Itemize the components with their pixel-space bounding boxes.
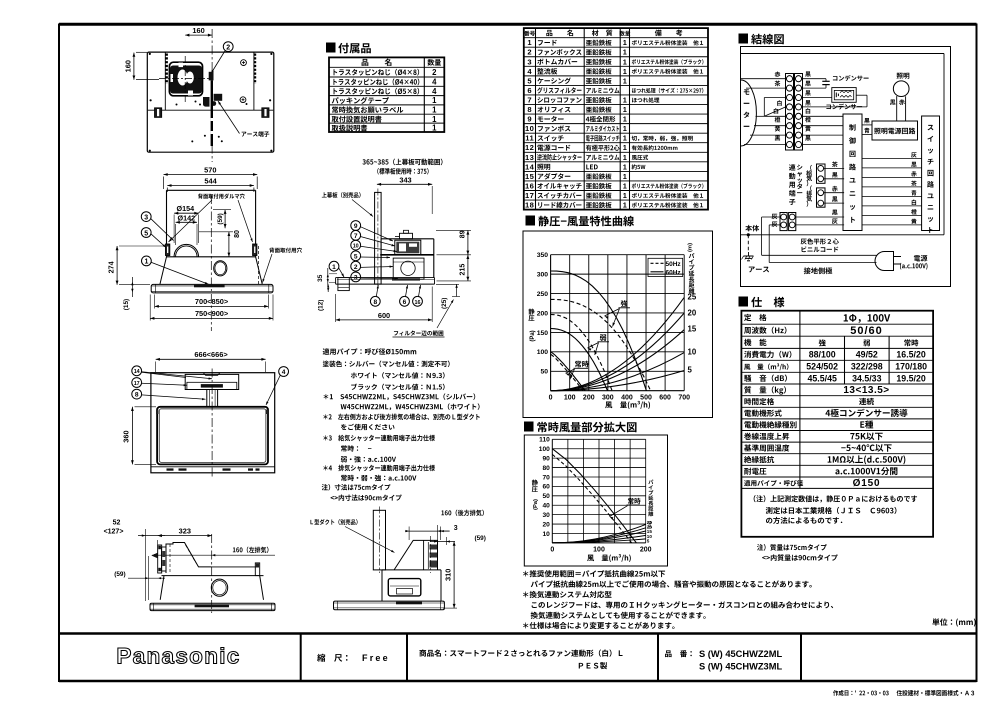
svg-text:0: 0: [550, 547, 554, 554]
pq chart legend 60Hz: [651, 271, 664, 273]
spec label 耐電圧: [744, 468, 766, 475]
usage note 2: [531, 580, 812, 587]
spec label 時間定格: [744, 398, 774, 405]
svg-text:34.5/33: 34.5/33: [852, 373, 881, 383]
wire color labels right: [805, 71, 810, 76]
front view: rear hole label: [269, 248, 302, 253]
enlarged chart outer box: [524, 435, 667, 566]
top view: earth terminal label: [242, 131, 270, 137]
svg-text:11: 11: [525, 134, 534, 143]
spec value insulation class: [860, 420, 873, 428]
svg-text:5: 5: [688, 366, 693, 375]
svg-text:1: 1: [623, 76, 627, 85]
svg-text:215: 215: [459, 264, 466, 276]
body boundary line: [741, 234, 945, 236]
spec section header: [739, 297, 749, 307]
svg-text:7: 7: [354, 233, 358, 240]
fan curve weak 60Hz: [551, 329, 608, 391]
svg-text:1: 1: [432, 96, 437, 105]
top view: dim 160 left: [133, 53, 135, 80]
svg-text:20: 20: [688, 309, 697, 318]
svg-text:4: 4: [432, 78, 437, 87]
top view: mounting bracket left: [155, 108, 162, 118]
svg-text:274: 274: [107, 261, 116, 273]
svg-text:524/502: 524/502: [806, 362, 838, 372]
right side view: dim 160 rear exhaust: [441, 510, 483, 516]
svg-text:16.5/20: 16.5/20: [896, 350, 925, 360]
svg-text:360: 360: [121, 430, 130, 442]
svg-text:Ø150: Ø150: [853, 478, 881, 489]
svg-text:700<850>: 700<850>: [195, 297, 229, 306]
spec value motor type: [825, 409, 907, 417]
color note 1: [323, 361, 450, 368]
bottom view: duct stem: [206, 390, 208, 407]
callout 10 balloon: [351, 240, 361, 250]
earth label: [749, 267, 769, 273]
control unit wires in: [802, 115, 844, 117]
duct note: [323, 414, 479, 421]
left side view: duct hole: [211, 579, 227, 596]
spec label 基準周囲温度: [744, 444, 789, 451]
front view: duct dome inner: [176, 246, 197, 257]
shutter note 4a: [341, 475, 416, 481]
spec value ambient temp: [841, 444, 891, 452]
svg-text:50: 50: [542, 493, 550, 500]
top view: dim 160 top: [185, 34, 212, 36]
shutter note 4: [323, 465, 435, 472]
svg-text:Panasonic: Panasonic: [116, 644, 240, 669]
capacitor C1: [802, 78, 827, 80]
plug symbol: [875, 252, 894, 271]
svg-text:1: 1: [623, 67, 627, 76]
top view: plate outline: [147, 52, 273, 152]
svg-text:89: 89: [459, 230, 466, 238]
svg-text:100: 100: [537, 349, 549, 356]
side view: dim 35: [327, 268, 329, 287]
svg-text:S (W) 45CHWZ2ML: S (W) 45CHWZ2ML: [699, 649, 782, 659]
svg-text:170/180: 170/180: [895, 362, 927, 372]
callout 17 balloon: [132, 378, 142, 388]
shutter note 3: [323, 435, 435, 442]
spec subheader: [819, 339, 826, 346]
parts table grid: [524, 28, 708, 210]
svg-text:1: 1: [623, 153, 627, 162]
accessories row 1: [334, 69, 420, 76]
svg-text:40: 40: [542, 503, 550, 510]
pq chart section header: [526, 216, 536, 226]
side view: fan scroll box: [395, 240, 421, 255]
svg-text:1: 1: [332, 264, 336, 271]
svg-text:300: 300: [537, 272, 549, 279]
enlarged curve always 50Hz: [552, 454, 631, 543]
fan curve always 60Hz: [551, 352, 585, 391]
bottom view: top notch: [203, 373, 220, 376]
enlarged curve always 60Hz: [552, 449, 636, 543]
svg-text:570: 570: [204, 165, 216, 174]
weight note 2: [762, 554, 838, 561]
svg-text:8: 8: [135, 392, 139, 399]
callout 1 balloon side: [329, 261, 339, 271]
svg-text:160: 160: [124, 60, 133, 72]
svg-text:7: 7: [527, 95, 532, 104]
top view: vent slots left: [165, 54, 168, 85]
color note 2: [351, 372, 445, 379]
usage note 4: [532, 601, 834, 608]
svg-text:5: 5: [144, 230, 148, 237]
front view: duct hole ring: [214, 261, 227, 276]
svg-text:700: 700: [678, 395, 690, 402]
weight note 1: [757, 544, 827, 551]
svg-text:Ø154: Ø154: [177, 204, 195, 213]
svg-text:15: 15: [525, 172, 535, 181]
callout 2 balloon: [223, 42, 233, 52]
svg-text:544: 544: [204, 176, 217, 185]
svg-text:50: 50: [541, 369, 549, 376]
svg-text:16: 16: [525, 181, 534, 190]
lamp circuit wire labels: [864, 118, 869, 123]
svg-text:4: 4: [527, 67, 532, 76]
right side view: L duct outline: [394, 540, 437, 570]
usage note 5: [531, 612, 706, 619]
pipe note: [323, 348, 417, 355]
left side view: exhaust arrow: [151, 553, 157, 558]
svg-text:8: 8: [373, 299, 377, 306]
top view: earth terminal part: [209, 72, 214, 81]
bottom view: outer outline: [151, 373, 275, 473]
spec label 機 能: [744, 339, 766, 346]
svg-text:5: 5: [647, 538, 650, 543]
bottom view: baffle clips: [156, 410, 158, 415]
side view: range note 2: [377, 168, 428, 175]
svg-text:15: 15: [688, 325, 697, 334]
footer format: [897, 690, 975, 696]
side view: top board: [375, 192, 382, 284]
svg-text:(Pa): (Pa): [533, 499, 539, 510]
spec value withstand: [835, 467, 897, 475]
svg-text:S (W) 45CHWZ3ML: S (W) 45CHWZ3ML: [699, 662, 782, 672]
power strip wire labels: [832, 210, 838, 215]
lamp wires: [896, 96, 898, 121]
svg-text:4: 4: [432, 87, 437, 96]
svg-text:600: 600: [378, 311, 390, 320]
svg-text:(59): (59): [217, 213, 224, 224]
callout 1 balloon: [142, 256, 152, 266]
bottom view: centerline: [211, 369, 213, 479]
side view: dim 89: [467, 230, 469, 254]
lamp label: [897, 73, 910, 79]
power strip wires right: [796, 216, 844, 218]
label always: [575, 361, 589, 368]
motor M: [741, 80, 757, 146]
dims note 1: [322, 484, 391, 491]
svg-text:600: 600: [659, 395, 671, 402]
svg-text:3: 3: [354, 275, 358, 282]
pq chart grid: [550, 255, 552, 391]
callout 3 balloon: [351, 272, 361, 282]
right side view: body top: [382, 569, 441, 571]
callout 8 balloon bottom: [370, 296, 380, 306]
exhaust wire labels: [832, 186, 838, 192]
top view: mounting bracket right: [262, 108, 269, 118]
switch circuit unit box: [922, 116, 940, 231]
terminal circles right: [795, 76, 801, 82]
spec label 消費電力（W）: [744, 351, 791, 358]
front view: bottom tray: [151, 284, 273, 293]
intake label: [810, 165, 812, 171]
intake wire labels: [832, 162, 838, 168]
top view: compartment bottom line: [148, 109, 273, 111]
svg-text:10: 10: [525, 124, 534, 133]
product name label: [419, 649, 622, 656]
side view: dim 215: [467, 255, 469, 281]
spec label 質 量（kg）: [744, 386, 786, 394]
pq chart legend box: [648, 258, 683, 276]
side view: motor cap: [400, 233, 413, 239]
accessories row 7: [332, 125, 368, 132]
top view: fan scroll dark body: [170, 66, 202, 94]
side view: board label: [322, 192, 361, 198]
label strong: [621, 300, 628, 307]
lamp circuit wires: [862, 124, 872, 126]
duct note 2: [341, 424, 395, 431]
left side view: inner dashed: [169, 544, 171, 573]
svg-text:12: 12: [525, 143, 534, 152]
top view: junction box: [203, 97, 210, 107]
right side view: duct interior: [423, 540, 425, 570]
control to switch wires: [862, 157, 922, 159]
power voltage label: [900, 263, 928, 270]
svg-text:(59): (59): [475, 535, 486, 542]
side view: inner box: [393, 258, 424, 279]
front view: switch strip dark: [194, 285, 225, 288]
left side view: dim 160 left exhaust: [233, 547, 269, 553]
enlarged pipe curves: [552, 524, 645, 543]
svg-text:1: 1: [527, 38, 532, 47]
label weak: [600, 334, 606, 341]
svg-text:35: 35: [317, 274, 324, 282]
callout 8 balloon k: [132, 389, 142, 399]
top view: terminal block: [214, 94, 223, 101]
exhaust label: [810, 185, 812, 191]
callout 5 balloon: [141, 228, 151, 238]
svg-text:80: 80: [234, 230, 241, 238]
front view: flare left: [160, 257, 167, 285]
enlarged chart x axis title: [587, 554, 631, 562]
usage note 6: [523, 622, 675, 629]
side view: filter range label: [394, 330, 443, 336]
svg-text:14: 14: [525, 162, 535, 171]
svg-text:1: 1: [623, 115, 627, 124]
front view: dim (15): [131, 277, 133, 297]
svg-text:250: 250: [537, 291, 549, 298]
front view: dim 544: [167, 185, 254, 187]
svg-text:50/60: 50/60: [850, 325, 883, 337]
svg-text:<127>: <127>: [104, 528, 124, 535]
ground pole label: [804, 267, 833, 274]
control circuit unit label: [849, 124, 855, 131]
pipe resistance curves: [551, 297, 685, 390]
spec label 定 格: [744, 314, 767, 321]
terminal strip right: [795, 74, 803, 151]
accessories row 2: [333, 78, 419, 85]
svg-text:310: 310: [443, 569, 452, 581]
front view: dim 700: [155, 305, 269, 307]
power terminal strip B: [789, 213, 796, 231]
left side view: bottom tray: [150, 603, 275, 610]
top view: plate centerline: [211, 29, 213, 162]
side view: body left edge: [380, 239, 382, 278]
enlarged chart grid: [551, 439, 553, 543]
svg-text:150: 150: [537, 330, 549, 337]
bottom view: bottom strip line: [151, 466, 275, 468]
svg-text:2: 2: [432, 68, 437, 77]
front view: side flange left: [166, 244, 170, 256]
model note 1b: [341, 403, 480, 410]
accessories section header: [326, 43, 336, 53]
svg-text:200: 200: [640, 547, 652, 554]
top view: small screws dots: [195, 101, 197, 103]
top view: inner compartment left wall: [164, 52, 166, 110]
svg-text:1: 1: [623, 57, 627, 66]
side view: dim (12): [327, 280, 329, 297]
control to switch wire labels: [911, 152, 916, 157]
svg-text:9: 9: [354, 223, 358, 230]
left side view: tray dark strip: [195, 604, 229, 607]
title block divider 1: [300, 634, 302, 682]
shutter note 3b: [341, 456, 396, 462]
front view: dim 750: [150, 317, 273, 319]
svg-text:1: 1: [623, 48, 627, 57]
bottom view: dim 666: [156, 358, 266, 360]
title block bottom border: [59, 680, 977, 683]
svg-text:10: 10: [542, 531, 550, 538]
svg-text:1: 1: [623, 201, 627, 210]
spec label 巻線温度上昇: [744, 433, 789, 440]
model number label: [665, 650, 692, 657]
callout 7 balloon: [351, 230, 361, 240]
wire top loop: [741, 53, 945, 55]
power strip labels: [772, 214, 778, 219]
enlarged chart right axis title: [648, 480, 653, 484]
spec label 騒 音（dB）: [744, 375, 787, 382]
control circuit unit box: [843, 114, 862, 231]
svg-text:110: 110: [539, 437, 550, 444]
enlarged chart section header: [524, 422, 534, 432]
fan curve strong 50Hz: [551, 299, 651, 390]
usage note 3: [523, 591, 612, 598]
right side view: duct centerline: [430, 536, 432, 573]
svg-text:80: 80: [542, 465, 550, 472]
svg-text:160: 160: [192, 26, 204, 35]
side view: dim 600: [336, 319, 433, 321]
spec note line3: [766, 517, 842, 524]
accessories table grid: [329, 57, 444, 132]
svg-text:350: 350: [537, 252, 549, 259]
spec label 風 量（m³/h）: [744, 363, 788, 370]
top view: fan centerline horizontal: [159, 77, 213, 79]
earth symbol: [748, 252, 750, 256]
side view: tray dark strip: [392, 278, 420, 280]
pq chart x axis title: [605, 401, 650, 409]
power label: [914, 255, 927, 262]
footer date: [833, 690, 889, 696]
svg-text:52: 52: [113, 520, 121, 527]
cord label: [801, 238, 839, 244]
svg-text:323: 323: [179, 526, 191, 535]
right side view: fan box: [388, 579, 421, 596]
svg-text:2: 2: [354, 264, 358, 271]
svg-text:3: 3: [144, 214, 148, 221]
enlarged label always: [628, 498, 641, 504]
svg-text:60: 60: [542, 484, 550, 491]
spec value insulation res: [828, 455, 906, 464]
pq chart outer box: [523, 231, 713, 418]
svg-text:1: 1: [623, 172, 627, 181]
right side view: bottom tray r: [334, 601, 445, 610]
callout 2 balloon: [351, 261, 361, 271]
scale label: [317, 654, 347, 662]
color note 3: [351, 384, 444, 391]
terminal strip left: [786, 74, 794, 151]
svg-text:100: 100: [564, 395, 576, 402]
svg-text:13<13.5>: 13<13.5>: [843, 385, 889, 396]
right side view: tray marks: [396, 602, 422, 605]
bottom view: switch unit box: [185, 374, 239, 389]
capacitor C2 wires: [802, 97, 832, 99]
intake terminal block: [817, 164, 826, 183]
svg-text:343: 343: [399, 176, 411, 185]
side view: hood right edge: [433, 239, 435, 278]
callout 4 balloon: [279, 367, 289, 377]
front view: darma hole label: [198, 193, 245, 198]
title block divider 3: [657, 634, 659, 682]
svg-text:16: 16: [415, 300, 421, 306]
svg-text:Free: Free: [362, 653, 390, 663]
top view: fan centerline vertical: [184, 56, 186, 104]
svg-text:70: 70: [542, 474, 550, 481]
spec value duty: [859, 398, 874, 405]
wire color labels left: [775, 71, 781, 77]
svg-text:(Pa): (Pa): [530, 330, 536, 341]
svg-text:17: 17: [134, 381, 140, 387]
svg-text:322/298: 322/298: [851, 362, 883, 372]
svg-text:6: 6: [527, 86, 532, 95]
svg-text:400: 400: [621, 395, 633, 402]
spec label 適用パイプ・呼び径: [744, 480, 803, 486]
top view: inner compartment right wall: [253, 52, 255, 110]
front view: dashed edge right: [257, 246, 259, 284]
wiring outer box: [741, 47, 951, 287]
svg-text:100: 100: [593, 547, 605, 554]
front view: dim 570: [164, 174, 258, 176]
right side view: L duct label: [310, 519, 357, 525]
callout 9 balloon: [351, 221, 361, 231]
left side view: centerline: [211, 534, 213, 613]
svg-text:(15): (15): [123, 299, 130, 310]
front view: flare right: [256, 257, 263, 285]
svg-text:1: 1: [623, 134, 627, 143]
svg-text:1: 1: [623, 105, 627, 114]
svg-text:0: 0: [549, 395, 553, 402]
svg-text:4: 4: [282, 369, 286, 376]
power terminal strip A: [780, 213, 787, 231]
intake wires: [824, 167, 845, 169]
right side view: body sides: [381, 570, 383, 601]
svg-text:1: 1: [623, 143, 627, 152]
front view: dim (59): [224, 210, 226, 229]
side view: dim 343: [377, 183, 432, 185]
svg-text:45.5/45: 45.5/45: [808, 373, 837, 383]
